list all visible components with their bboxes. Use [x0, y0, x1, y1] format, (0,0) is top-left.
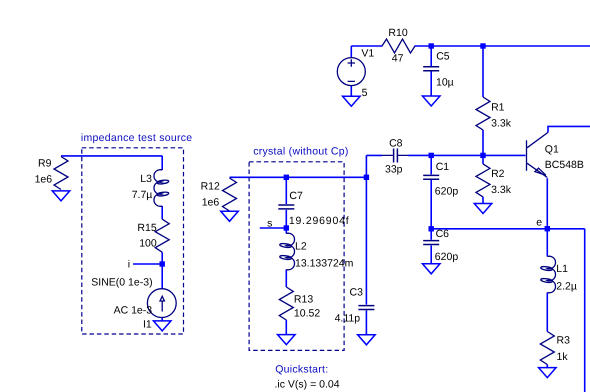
- svg-text:19.296904f: 19.296904f: [289, 215, 350, 227]
- svg-text:AC 1e-3: AC 1e-3: [114, 305, 153, 317]
- svg-text:R2: R2: [491, 168, 505, 180]
- svg-text:2.2µ: 2.2µ: [556, 280, 577, 292]
- svg-text:.ic V(s) = 0.04: .ic V(s) = 0.04: [275, 378, 340, 390]
- svg-text:impedance test source: impedance test source: [81, 132, 193, 144]
- svg-text:C5: C5: [436, 51, 450, 63]
- svg-text:Q1: Q1: [545, 143, 559, 155]
- svg-text:L3: L3: [140, 173, 152, 185]
- svg-text:V1: V1: [361, 47, 374, 59]
- svg-text:47: 47: [392, 53, 404, 65]
- svg-text:10.52: 10.52: [294, 308, 320, 320]
- svg-text:SINE(0 1e-3): SINE(0 1e-3): [91, 276, 152, 288]
- svg-text:620p: 620p: [435, 251, 459, 263]
- svg-text:R10: R10: [388, 27, 407, 39]
- svg-text:1k: 1k: [557, 351, 569, 363]
- svg-text:R15: R15: [137, 222, 156, 234]
- svg-text:R1: R1: [491, 102, 505, 114]
- svg-text:620p: 620p: [435, 186, 459, 198]
- svg-text:C3: C3: [350, 287, 364, 299]
- svg-text:1e6: 1e6: [202, 196, 220, 208]
- svg-text:4.11p: 4.11p: [335, 313, 361, 325]
- svg-text:e: e: [536, 217, 542, 229]
- svg-text:i: i: [128, 259, 130, 271]
- svg-text:L2: L2: [295, 241, 307, 253]
- svg-text:BC548B: BC548B: [545, 159, 584, 171]
- svg-text:33p: 33p: [385, 163, 403, 175]
- svg-text:1e6: 1e6: [35, 174, 53, 186]
- svg-text:100: 100: [139, 238, 157, 250]
- svg-text:R13: R13: [294, 294, 313, 306]
- svg-text:L1: L1: [556, 263, 568, 275]
- svg-text:5: 5: [362, 87, 368, 99]
- svg-text:s: s: [267, 218, 272, 230]
- svg-text:C6: C6: [436, 228, 450, 240]
- svg-text:R9: R9: [38, 158, 52, 170]
- svg-text:R3: R3: [557, 334, 571, 346]
- svg-text:10µ: 10µ: [436, 77, 454, 89]
- svg-text:7.7µ: 7.7µ: [132, 189, 153, 201]
- svg-text:3.3k: 3.3k: [491, 118, 512, 130]
- svg-text:Quickstart:: Quickstart:: [275, 364, 328, 376]
- svg-text:I1: I1: [143, 319, 152, 331]
- svg-text:3.3k: 3.3k: [491, 184, 512, 196]
- svg-text:C7: C7: [289, 190, 303, 202]
- svg-text:C8: C8: [389, 138, 403, 150]
- svg-text:C1: C1: [436, 161, 450, 173]
- svg-text:13.133724m: 13.133724m: [295, 258, 354, 270]
- svg-text:crystal (without Cp): crystal (without Cp): [253, 145, 348, 157]
- svg-text:R12: R12: [201, 181, 220, 193]
